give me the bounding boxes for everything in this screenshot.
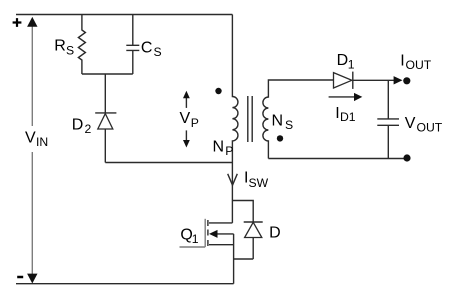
- svg-text:C: C: [141, 39, 153, 56]
- wire top rail: [16, 14, 232, 16]
- node VIN arrowhead down: [27, 274, 37, 284]
- node secondary dot: [277, 135, 283, 141]
- transistor Q1 gate bar: [204, 219, 206, 247]
- svg-text:N: N: [213, 139, 225, 156]
- svg-text:R: R: [54, 38, 66, 55]
- capacitor VOUT: [377, 80, 399, 158]
- svg-text:S: S: [285, 118, 293, 132]
- svg-text:OUT: OUT: [406, 58, 432, 72]
- transistor Q1 gate lead: [180, 246, 206, 248]
- svg-text:P: P: [191, 116, 199, 130]
- node ISW arrowhead: [228, 174, 238, 185]
- wire D1 to output: [353, 79, 394, 81]
- wire secondary bottom rail: [268, 158, 404, 160]
- transformer core: [248, 96, 252, 142]
- wire D2 to switch node: [105, 162, 232, 164]
- node primary dot: [215, 88, 221, 94]
- svg-text:S: S: [66, 44, 74, 58]
- transistor Q1 channel segments: [207, 220, 209, 246]
- svg-text:V: V: [25, 129, 36, 146]
- node IOUT arrowhead: [394, 76, 403, 84]
- node minus sign: [17, 276, 23, 279]
- svg-text:1: 1: [192, 232, 199, 246]
- svg-text:OUT: OUT: [417, 120, 443, 134]
- transformer primary NP: [232, 15, 238, 223]
- svg-text:I: I: [400, 52, 404, 69]
- svg-text:D: D: [337, 52, 349, 69]
- wire bottom rail: [16, 283, 234, 285]
- node VP arrow down: [185, 130, 187, 140]
- svg-text:IN: IN: [36, 135, 48, 149]
- transistor Q1 drain stub: [209, 222, 232, 224]
- resistor RS: [78, 15, 85, 75]
- svg-text:SW: SW: [249, 176, 269, 190]
- node VIN arrowhead up: [27, 17, 37, 27]
- svg-text:D: D: [72, 116, 84, 133]
- svg-text:1: 1: [348, 57, 355, 71]
- node ID1 arrow: [329, 96, 356, 98]
- svg-text:V: V: [180, 110, 191, 127]
- diode D2: [95, 74, 116, 163]
- wire source down to bottom rail: [233, 234, 235, 284]
- wire snubber bottom: [82, 73, 133, 75]
- diode D body: [234, 222, 263, 259]
- node IOUT terminal dot: [403, 77, 410, 84]
- transistor Q1 body stub with arrow: [216, 233, 234, 235]
- capacitor CS: [126, 15, 139, 75]
- diode D1: [334, 72, 353, 89]
- transistor Q1 source stub: [209, 244, 234, 246]
- svg-text:S: S: [154, 45, 162, 59]
- svg-text:P: P: [225, 144, 233, 158]
- node VIN arrow line lower: [31, 152, 33, 275]
- node VOUT terminal dot: [403, 154, 410, 161]
- wire drain tee to body diode: [232, 201, 253, 223]
- node VP arrow up: [185, 98, 187, 108]
- transformer secondary NS: [263, 80, 334, 159]
- svg-text:2: 2: [85, 122, 92, 136]
- svg-text:D: D: [269, 225, 281, 242]
- node VIN arrow line upper: [31, 25, 33, 126]
- svg-text:V: V: [405, 115, 416, 132]
- node plus sign: [13, 18, 22, 27]
- svg-text:I: I: [335, 105, 339, 122]
- svg-text:D1: D1: [340, 110, 356, 124]
- svg-text:N: N: [272, 112, 284, 129]
